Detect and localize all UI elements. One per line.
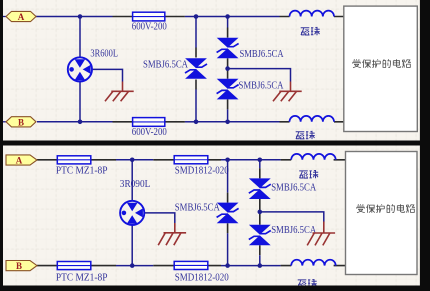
fuse F4 pins xyxy=(153,159,221,161)
svg-text:PTC MZ1-8P: PTC MZ1-8P xyxy=(56,272,108,283)
wire: net A2 down to TVS D5 xyxy=(259,160,261,169)
bead L4 pins xyxy=(281,265,346,267)
wire: net A down to TVS D1 xyxy=(195,17,197,48)
wire: F2 pin to junction xyxy=(185,121,196,123)
ground G2 xyxy=(273,91,302,101)
inductor L4 xyxy=(291,260,336,266)
svg-text:SMBJ6.5CA: SMBJ6.5CA xyxy=(271,225,317,236)
svg-text:B: B xyxy=(18,118,24,128)
wire: PTC F5 to fuse F6 xyxy=(116,265,153,267)
PTC F5 right pin xyxy=(91,265,116,267)
junction net A / TVS D1 xyxy=(194,14,199,19)
wire: TVS D1 down to net B xyxy=(195,90,197,122)
wire: port A to PTC F3 xyxy=(37,159,57,161)
port B (bottom) xyxy=(6,261,37,272)
svg-text:SMBJ6.5CA: SMBJ6.5CA xyxy=(240,49,285,60)
wire: TVS D4 down to net B2 xyxy=(227,233,229,265)
ground G4 xyxy=(307,233,335,245)
svg-text:SMBJ6.5CA: SMBJ6.5CA xyxy=(271,183,317,194)
svg-text:PTC MZ1-8P: PTC MZ1-8P xyxy=(56,165,108,176)
PTC fuse F4 SMD1812-020 xyxy=(174,156,208,164)
label cizhu L1 xyxy=(301,27,320,35)
svg-text:B: B xyxy=(16,261,22,271)
wire: PTC F3 to fuse F4 xyxy=(116,159,153,161)
wire: net A down to GDT U1 xyxy=(79,17,81,58)
wire: TVS D6 down to net B2 xyxy=(259,255,261,265)
TVS D2 SMBJ6.5CA xyxy=(217,38,239,59)
junction net B2 / TVS D4 xyxy=(225,263,230,268)
PTC fuse F6 SMD1812-020 xyxy=(174,261,208,269)
wire: D2/D3 midpoint to ground xyxy=(228,69,291,82)
PTC fuse F3 MZ1-8P xyxy=(57,156,91,164)
TVS D6 SMBJ6.5CA xyxy=(249,225,271,246)
ground stem 3 (red) xyxy=(174,223,176,233)
junction net A2 / TVS D4 xyxy=(225,158,230,163)
gas discharge tube U1 3R600L xyxy=(68,57,92,81)
wire stub left of port A xyxy=(3,16,7,18)
svg-text:SMD1812-020: SMD1812-020 xyxy=(175,165,229,176)
fuse F1 pins (black) xyxy=(113,16,185,18)
port A (top) xyxy=(6,11,36,22)
wire: port A to fuse F1 xyxy=(36,16,113,18)
junction net A2 / TVS D5 xyxy=(258,158,263,163)
TVS D4 SMBJ6.5CA xyxy=(217,203,239,224)
wire: fuse F6 to bead L4 xyxy=(221,265,281,267)
PTC fuse F5 MZ1-8P xyxy=(57,262,91,270)
junction D5/D6 midpoint xyxy=(258,210,263,215)
wire: GDT U2 down to net B2 xyxy=(131,225,133,266)
inductor L1 pins xyxy=(280,16,345,18)
wire: D5/D6 midpoint to ground xyxy=(260,212,324,222)
TVS D1 pins xyxy=(195,48,197,90)
wire: fuse F2 to bead L2 xyxy=(196,121,280,123)
wire: GDT U1 center electrode to ground xyxy=(92,69,123,81)
svg-text:3R600L: 3R600L xyxy=(90,49,118,60)
junction net B / TVS D3 xyxy=(225,120,230,125)
label cizhu L2 xyxy=(296,131,315,139)
inductor L3 xyxy=(291,154,336,160)
TVS D2/D3 pins xyxy=(227,28,229,110)
wire: port B to fuse F2 xyxy=(37,121,113,123)
wire: TVS D3 down to net B xyxy=(227,109,229,121)
fuse F1 600V-200 xyxy=(133,12,165,21)
wire: port B to PTC F5 xyxy=(37,265,57,267)
wire stub left of port B xyxy=(3,121,7,123)
wire: net A2 down to GDT U2 xyxy=(131,160,133,201)
port B (top) xyxy=(6,117,36,128)
wire: net A down to TVS D2 xyxy=(227,17,229,28)
inductor L2 pins xyxy=(280,121,345,123)
label cizhu L4 xyxy=(298,279,317,287)
svg-text:A: A xyxy=(16,156,23,166)
wire: fuse F1 to bead L1 xyxy=(196,16,280,18)
wire: GDT U1 down to net B xyxy=(79,82,81,122)
gas discharge tube U2 3R090L xyxy=(120,201,144,225)
fuse F2 600V-200 xyxy=(133,118,165,127)
ground stem 4 (red) xyxy=(323,222,325,234)
ground stem (red) xyxy=(122,82,124,92)
junction net B2 / GDT U2 xyxy=(130,263,135,268)
TVS D1 SMBJ6.5CA xyxy=(185,58,207,79)
junction net A / TVS D2 xyxy=(225,14,230,19)
junction D2/D3 midpoint xyxy=(225,66,230,71)
TVS D5/D6 pins xyxy=(259,168,261,255)
label cizhu L3 xyxy=(299,170,318,178)
junction net B2 / TVS D6 xyxy=(258,263,263,268)
fuse F2 pins xyxy=(113,121,185,123)
TVS D4 pins xyxy=(227,193,229,234)
svg-text:3R090L: 3R090L xyxy=(120,179,151,190)
svg-text:SMBJ6.5CA: SMBJ6.5CA xyxy=(175,203,221,214)
junction net B / GDT U1 xyxy=(78,120,83,125)
port A (bottom) xyxy=(6,155,37,166)
ground G1 xyxy=(105,91,134,101)
bead L3 pins xyxy=(281,159,346,161)
svg-text:600V-200: 600V-200 xyxy=(132,21,167,32)
PTC F3 right pin xyxy=(91,159,116,161)
protected circuit box 1 xyxy=(344,6,418,131)
svg-text:A: A xyxy=(18,12,25,22)
svg-text:SMBJ6.5CA: SMBJ6.5CA xyxy=(239,81,285,92)
junction net A / GDT U1 xyxy=(78,14,83,19)
fuse F6 pins xyxy=(153,265,221,267)
TVS D5 SMBJ6.5CA xyxy=(249,178,271,199)
svg-text:600V-200: 600V-200 xyxy=(132,127,167,138)
junction net B / TVS D1 xyxy=(194,120,199,125)
ground G3 xyxy=(158,233,186,245)
wire: fuse F4 to bead L3 xyxy=(221,159,281,161)
inductor L2 xyxy=(290,116,335,122)
TVS D3 SMBJ6.5CA xyxy=(217,79,239,100)
svg-text:SMBJ6.5CA: SMBJ6.5CA xyxy=(143,60,189,71)
svg-text:SMD1812-020: SMD1812-020 xyxy=(175,272,229,283)
ground stem 2 (red) xyxy=(290,82,292,92)
junction net A2 / GDT U2 xyxy=(130,158,135,163)
wire: F1 pin to junction xyxy=(185,16,196,18)
wire: GDT U2 center electrode to ground xyxy=(144,213,175,223)
protected circuit box 2 xyxy=(346,152,418,275)
inductor L1 (ferrite bead) xyxy=(290,11,335,17)
wire: net A2 down to TVS D4 xyxy=(227,160,229,193)
